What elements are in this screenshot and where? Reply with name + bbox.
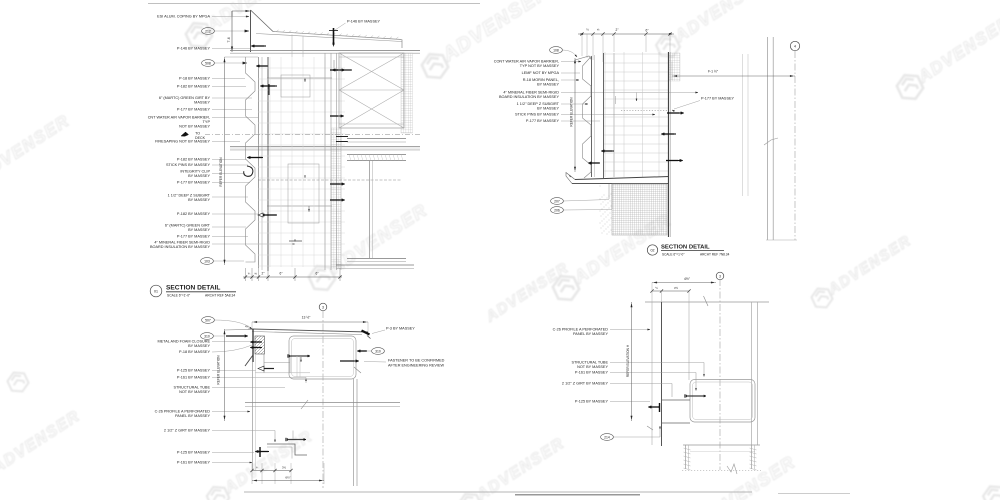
svg-text:3: 3 [719,275,721,279]
svg-text:3½: 3½ [282,466,287,470]
leader drop z-girt [292,431,294,440]
svg-text:ARCHT REF 7N8.34: ARCHT REF 7N8.34 [700,253,730,257]
column base right edge serrated [751,445,753,469]
svg-text:REFER ELEVATION: REFER ELEVATION [217,355,221,385]
base break zigzag [727,464,737,474]
parapet blocking vertical 1 [291,35,293,58]
svg-text:P-177 BY MASSEY: P-177 BY MASSEY [177,181,211,185]
svg-text:P-182 BY MASSEY: P-182 BY MASSEY [177,212,211,216]
watermark logo corner [981,482,1000,500]
svg-text:3: 3 [322,306,324,310]
tube right screw [356,360,359,363]
down arrow at girt [300,357,302,361]
coping roof slope lower [256,34,402,42]
grid strong vertical 1 [324,53,326,270]
watermark tile bottom-mid [456,490,483,500]
svg-text:SECTION DETAIL: SECTION DETAIL [166,285,220,292]
top edge line d04 [645,301,769,303]
bottom partial line left [515,494,640,496]
wall fastener y46 [251,45,254,48]
wall fastener y86 [260,85,263,88]
integrity clip hook [244,166,253,176]
sheet bottom long line [244,491,752,493]
svg-text:AFTER ENGINEERING REVIEW: AFTER ENGINEERING REVIEW [388,364,445,368]
watermark tile top-mid2 [654,31,683,61]
dim line bottom [243,276,342,278]
svg-text:P-146 BY MASSEY: P-146 BY MASSEY [177,47,211,51]
svg-text:STICK PINS BY MASSEY: STICK PINS BY MASSEY [515,113,559,117]
svg-text:STRUCTURAL TUBE: STRUCTURAL TUBE [174,386,211,390]
svg-text:NOT BY MASSEY: NOT BY MASSEY [179,125,210,129]
svg-text:P-161 BY MASSEY: P-161 BY MASSEY [177,376,211,380]
watermark tile top-right [894,70,926,103]
girt double line d03 [245,402,400,404]
x-brace diagonals upper cell [339,53,404,90]
i-beam web [369,161,371,258]
svg-text:4" MINERAL FIBER SEMI-RIGID: 4" MINERAL FIBER SEMI-RIGID [154,241,210,245]
wall inner line 1 [261,57,263,270]
svg-text:ESI ALUM. COPING BY MPGA: ESI ALUM. COPING BY MPGA [157,15,210,19]
refer elevation dim d03 [224,329,226,421]
svg-text:13 ½": 13 ½" [302,316,312,320]
dim extension lines bottom [245,268,247,281]
sub rect lower [288,164,319,223]
svg-text:P-146 BY MASSEY: P-146 BY MASSEY [347,20,381,24]
closure hatch block [255,336,265,354]
structural tube outer [289,336,356,379]
svg-text:FASTENER TO BE CONFIRMED: FASTENER TO BE CONFIRMED [388,359,445,363]
svg-text:212: 212 [205,29,211,33]
svg-text:P-161 BY MASSEY: P-161 BY MASSEY [575,371,609,375]
z-girt screw [285,438,287,441]
wall face line [258,57,260,268]
bubble 206 [551,207,564,214]
coping hatch ticks [276,30,279,32]
grid fastener y183 [342,183,345,186]
deck band at mid [230,147,420,151]
grid fastener y70 [342,69,345,72]
concrete crosshatch block d02 [612,184,667,235]
detail 01 title underline [166,291,236,293]
vertical tick near F2 [333,60,335,69]
column below tube d03 [353,379,355,486]
dim row1 d03 [252,470,291,472]
dim extension lines d03 [251,463,253,484]
svg-text:214: 214 [604,435,610,439]
tube screw fastener [287,354,289,357]
leader drop 1 [615,96,617,104]
svg-text:BY MASSEY: BY MASSEY [188,198,210,202]
wall inner line c [613,53,615,177]
watermark tile top-left [183,18,215,51]
girt step horizontal [264,362,290,364]
coping right end [401,40,403,49]
svg-text:BY MASSEY: BY MASSEY [188,344,210,348]
svg-text:NOT BY MASSEY: NOT BY MASSEY [577,365,608,369]
grid bubble 3 d04 [716,272,724,280]
svg-text:2 1/2" Z GIRT BY MASSEY: 2 1/2" Z GIRT BY MASSEY [164,429,211,433]
sheet top edge line [148,3,480,5]
beam connection marks [336,136,348,138]
detail 01 title bubble [150,285,162,297]
svg-text:6" (MARTC) GREEN GIRT: 6" (MARTC) GREEN GIRT [165,224,211,228]
girt step vertical [289,356,291,373]
svg-text:4: 4 [794,45,796,49]
fastener arrow 310 [245,335,248,338]
beam at 139 [347,138,406,140]
bottom partial line right [778,493,850,495]
watermark tile mid-right [809,285,834,312]
bubble 214 [601,434,614,441]
z-girt profile bottom [267,444,307,455]
bubble 310 right [372,348,385,355]
open arrow fastener d03 [258,366,264,371]
svg-text:CNT WATER AIR VAPOR BARRIER,: CNT WATER AIR VAPOR BARRIER, [148,116,210,120]
grid fastener y116 [341,115,344,118]
sheathing line 2 [340,53,342,270]
grid strong vertical 2 [330,53,332,270]
closure fastener 1 [250,341,253,344]
svg-text:C-26 PROFILE A PERFORATED: C-26 PROFILE A PERFORATED [155,410,211,414]
svg-text:2": 2" [262,272,265,276]
svg-text:C-26 PROFILE A PERFORATED: C-26 PROFILE A PERFORATED [553,328,609,332]
svg-text:BOARD INSULATION BY MASSEY: BOARD INSULATION BY MASSEY [150,245,210,249]
leader vertical 207 [608,184,610,199]
girt line d04 [688,302,690,380]
x-braced panel frame [339,53,404,128]
dim extension lines d02 [581,34,583,56]
wall inner line 2 [267,57,269,271]
bubble 103 [201,258,214,265]
svg-text:INTEGRITY CLIP: INTEGRITY CLIP [180,170,210,174]
dim row2 d03 [252,480,324,482]
svg-text:FIRESAPING NOT BY MASSEY: FIRESAPING NOT BY MASSEY [155,140,210,144]
sub rect upper [281,75,310,97]
svg-text:P-177 BY MASSEY: P-177 BY MASSEY [177,235,211,239]
svg-text:206: 206 [554,208,560,212]
roof slope line d03 [225,328,253,331]
svg-text:BOARD INSULATION BY MASSEY: BOARD INSULATION BY MASSEY [499,95,559,99]
dashed line to deck [205,134,420,136]
svg-text:310: 310 [204,334,210,338]
closure right edge line [263,354,265,374]
coping roof slope upper [273,32,402,40]
svg-text:P-161 BY MASSEY: P-161 BY MASSEY [177,461,211,465]
tube corner tick [354,367,361,373]
short girt mark y241 [289,240,302,242]
vertical dim line top [231,11,233,52]
mesh strip right [401,53,413,133]
svg-text:STICK PINS BY MASSEY: STICK PINS BY MASSEY [166,163,210,167]
z-girt fastener [255,450,258,453]
svg-text:2": 2" [616,28,619,32]
beam at 259 [347,258,406,260]
fastener below coping F2 [332,69,335,72]
svg-text:SCALE 6"=1'-0": SCALE 6"=1'-0" [662,253,684,257]
leader vertical 206 [611,184,613,209]
leader drop 2 [636,93,638,101]
z-girt fastener d04 [648,406,651,409]
wall foot diagonal d03 [245,355,253,366]
z-girt profile d04 [662,400,691,423]
wall fastener y66 [256,65,259,68]
svg-text:REFER ELEVATION: REFER ELEVATION [219,157,223,187]
tube inner stiffener [296,356,298,377]
dashed girt line [258,179,402,181]
z-girt screw d04 [684,394,686,397]
wall face line d02 [591,56,593,177]
svg-text:TYP NOT BY MASSEY: TYP NOT BY MASSEY [520,64,560,68]
wall inner line a [594,55,596,177]
svg-text:108: 108 [553,48,559,52]
svg-text:BY MASSEY: BY MASSEY [537,107,559,111]
structural tube inner d04 [693,382,753,420]
panel line light d04 [651,302,653,445]
watermark tile top-mid [419,49,451,82]
panel face lines d03 [252,362,254,470]
svg-text:103: 103 [204,259,210,263]
inner column lines d02 [742,54,744,196]
column pair lines d02 [767,37,769,240]
svg-text:TO: TO [195,132,200,136]
svg-text:4" MINERAL FIBER SEMI-RIGID: 4" MINERAL FIBER SEMI-RIGID [503,91,559,95]
svg-text:P-182 BY MASSEY: P-182 BY MASSEY [177,85,211,89]
girt line B [267,205,332,207]
wall fastener y215 [261,214,264,217]
girt line A [267,77,332,79]
watermark logo left-low [5,369,30,396]
col bottom tick [766,239,797,241]
girt grid d02 [604,52,668,177]
track at 155 [347,154,406,156]
fastener right y113 [681,112,684,115]
dim F-1 1/2 [672,75,795,77]
column base bottom dashed [682,470,761,472]
svg-text:REFER ELEVATION H: REFER ELEVATION H [626,344,630,377]
svg-text:P-177 BY MASSEY: P-177 BY MASSEY [526,119,560,123]
centerline d03 [322,311,324,488]
wall insulation zigzag profile [246,57,256,262]
panel face dark line d02 [668,52,670,237]
fastener on coping F1 [333,28,335,45]
sheathing line [336,53,338,270]
svg-text:P-125 BY MASSEY: P-125 BY MASSEY [177,451,211,455]
column break mark d02 [764,138,778,145]
svg-text:2 1/2" Z GIRT BY MASSEY: 2 1/2" Z GIRT BY MASSEY [562,382,609,386]
svg-text:4½": 4½" [684,277,691,281]
structural tube inner [292,339,354,377]
fastener right y160 [680,159,683,162]
wall inner line b (girt face) [603,53,605,178]
column base top line [683,444,760,446]
girt level line [255,372,310,374]
dim row2 d04 [652,290,689,292]
stipple strip d02 [599,185,602,188]
centerline d04 [719,279,721,470]
girt break mark d03 [301,400,308,409]
svg-text:METAL AND FOAM CLOSURE: METAL AND FOAM CLOSURE [157,340,210,344]
grid bubble 3 d03 [319,303,327,311]
break slash d04 [704,296,709,306]
svg-text:508: 508 [205,61,211,65]
column base left edge serrated [685,445,687,469]
svg-text:6": 6" [646,29,649,33]
refer elevation dim line [224,57,226,265]
svg-text:507: 507 [205,318,211,322]
watermark tile mid-center [550,271,582,304]
wall face dark d03 [252,329,254,362]
refer elevation dim d04 [631,302,633,421]
svg-text:R-18 MORIN PANEL,: R-18 MORIN PANEL, [523,78,559,82]
detail 02 title bubble [647,245,657,255]
panel line dark d04 [661,302,663,446]
svg-text:P-182 BY MASSEY: P-182 BY MASSEY [177,158,211,162]
svg-text:P-18 BY MASSEY: P-18 BY MASSEY [179,350,210,354]
x-brace diagonals lower cell [339,90,404,128]
svg-text:02: 02 [651,249,655,253]
panel top mesh cap [669,53,681,81]
svg-text:NOT BY MASSEY: NOT BY MASSEY [179,390,210,394]
refer elevation dim d02 [574,58,576,172]
svg-text:P-3 BY MASSEY: P-3 BY MASSEY [386,327,415,331]
svg-text:CONT WATER AIR VAPOR BARRIER,: CONT WATER AIR VAPOR BARRIER, [494,60,559,64]
svg-text:REFER ELEVATION: REFER ELEVATION [570,97,574,127]
svg-text:TYP: TYP [203,120,211,124]
bubble 207 [551,198,564,205]
fastener right y135 [661,133,664,136]
wall zigzag d02 [583,56,592,178]
insulation pin grid [258,57,345,267]
svg-text:P-177 BY MASSEY: P-177 BY MASSEY [177,108,211,112]
flashing bottom edge d02 [575,177,669,180]
dim line top d02 [578,33,674,35]
roof deck lines [230,50,420,52]
structural tube outer d04 [690,380,755,423]
coping top slope [251,10,274,32]
wall fastener y157 [247,156,250,159]
stick pin mesh strip [331,128,341,268]
bubble 108 [550,47,563,54]
x-brace chords [339,56,404,58]
svg-text:SECTION DETAIL: SECTION DETAIL [661,245,710,251]
fastener wall y151 [601,150,604,153]
wall top peak [575,56,592,60]
grid centerline d02 [794,51,796,240]
coping face vertical [250,10,252,52]
to-deck flag symbol [181,132,189,136]
flashing foot d02 [566,173,575,184]
corner tick d04 [647,426,653,430]
svg-text:BY MASSEY: BY MASSEY [537,83,559,87]
fastener wall y163 [588,162,591,165]
svg-text:BY MASSEY: BY MASSEY [188,174,210,178]
svg-text:STRUCTURAL TUBE: STRUCTURAL TUBE [572,361,609,365]
svg-text:310: 310 [375,349,381,353]
bubble 212 [202,28,215,35]
svg-text:P-125 BY MASSEY: P-125 BY MASSEY [177,369,211,373]
svg-text:6": 6" [280,272,283,276]
dashed line d02 [621,110,668,112]
svg-text:6": 6" [316,272,319,276]
svg-text:P-125 BY MASSEY: P-125 BY MASSEY [575,400,609,404]
svg-text:MASSEY: MASSEY [194,101,210,105]
open arrow fastener y215 [258,213,263,217]
dim extensions d04 [651,283,653,303]
z-girt dark bar [259,447,261,457]
svg-text:1 1/2" DEEP Z SUBGIRT: 1 1/2" DEEP Z SUBGIRT [168,194,211,198]
watermark tile mid-left [306,261,338,294]
column line pair d04 [751,302,753,445]
closure fastener 2 [250,346,253,349]
bubble 507 [202,317,215,324]
watermark tile bottom-left [204,483,231,500]
svg-text:LEMF NOT BY MPGA: LEMF NOT BY MPGA [522,71,560,75]
svg-text:F-1 ½": F-1 ½" [708,70,719,74]
roof end clip d03 [362,331,370,335]
svg-text:P-18 BY MASSEY: P-18 BY MASSEY [179,77,210,81]
svg-text:ARCHT REF 5A8.34: ARCHT REF 5A8.34 [205,294,235,298]
beam at 266 [336,264,414,266]
grid fastener y200 [342,199,345,202]
clip mark y88 [268,84,270,95]
bubble 508 [202,60,215,67]
svg-text:PANEL BY MASSEY: PANEL BY MASSEY [175,414,210,418]
svg-text:207: 207 [554,199,560,203]
detail 02 title underline [661,250,724,252]
z-girt dark bar d04 [659,403,661,412]
svg-text:7'-6: 7'-6 [227,37,231,42]
bubble 310 left [201,333,214,340]
svg-text:01: 01 [154,290,158,294]
svg-text:BY MASSEY: BY MASSEY [188,228,210,232]
svg-text:3½: 3½ [674,286,679,290]
grid bubble 4 [790,41,799,50]
svg-text:6" (MARTC) GREEN GIRT BY: 6" (MARTC) GREEN GIRT BY [159,96,211,100]
svg-text:PANEL BY MASSEY: PANEL BY MASSEY [573,332,608,336]
svg-text:6½": 6½" [285,476,290,480]
dim bracket top [232,10,250,12]
parapet blocking vertical 2 [302,36,304,57]
svg-text:1 1/2" DEEP Z SUBGIRT: 1 1/2" DEEP Z SUBGIRT [517,102,560,106]
svg-text:SCALE 6"=1'-0": SCALE 6"=1'-0" [167,294,191,298]
svg-text:P-177 BY MASSEY: P-177 BY MASSEY [701,97,735,101]
